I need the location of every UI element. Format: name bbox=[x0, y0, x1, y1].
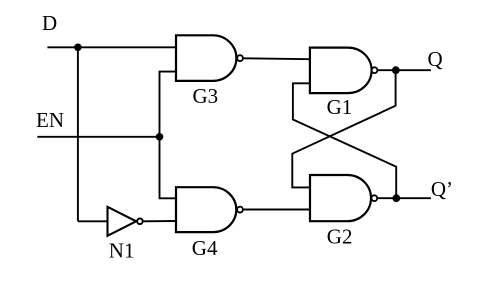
node Q junction bbox=[392, 66, 400, 74]
nand G4 body bbox=[176, 187, 236, 232]
inverter N1 output bubble bbox=[137, 219, 143, 225]
wire EN down to G4 upper input bbox=[160, 137, 177, 199]
nand G2 output bubble bbox=[371, 195, 377, 201]
node EN junction bbox=[156, 133, 164, 141]
nand G3 body bbox=[176, 35, 236, 81]
node Q-bar junction bbox=[392, 194, 400, 202]
nand G1 body bbox=[310, 48, 372, 94]
svg-text:G2: G2 bbox=[327, 225, 353, 249]
svg-text:D: D bbox=[42, 11, 57, 35]
wire N1 output to G4 lower input bbox=[143, 220, 176, 222]
wire EN up to G3 lower input bbox=[160, 72, 177, 137]
svg-text:EN: EN bbox=[36, 108, 64, 132]
svg-text:Q: Q bbox=[428, 47, 443, 71]
node D junction bbox=[74, 44, 82, 52]
nand G1 output bubble bbox=[372, 67, 378, 73]
wire feedback from Q down-diagonal to G2 upper input bbox=[292, 70, 395, 187]
wire G1 output to Q node bbox=[377, 69, 395, 71]
svg-text:G4: G4 bbox=[192, 236, 218, 260]
wire Q-bar output bbox=[396, 197, 431, 199]
wire G4 output to G2 lower input bbox=[243, 209, 310, 211]
wire G2 output to Qbar node bbox=[377, 197, 396, 199]
wire D input to G3 upper input bbox=[47, 46, 176, 48]
inverter N1 triangle bbox=[108, 207, 137, 236]
svg-text:N1: N1 bbox=[109, 238, 135, 262]
wire feedback from Q-bar up-diagonal to G1 lower input bbox=[293, 83, 396, 198]
wire EN input bbox=[37, 136, 159, 138]
wire D vertical branch down to inverter level bbox=[77, 47, 79, 221]
svg-text:G3: G3 bbox=[193, 84, 219, 108]
nand G4 output bubble bbox=[237, 207, 243, 213]
wire D branch into N1 input bbox=[78, 220, 108, 222]
wire G3 output to G1 upper input bbox=[243, 57, 310, 60]
svg-text:Q’: Q’ bbox=[431, 177, 453, 201]
nand G2 body bbox=[310, 175, 371, 221]
wire Q output bbox=[395, 69, 431, 71]
svg-text:G1: G1 bbox=[327, 95, 353, 119]
nand G3 output bubble bbox=[237, 55, 243, 61]
